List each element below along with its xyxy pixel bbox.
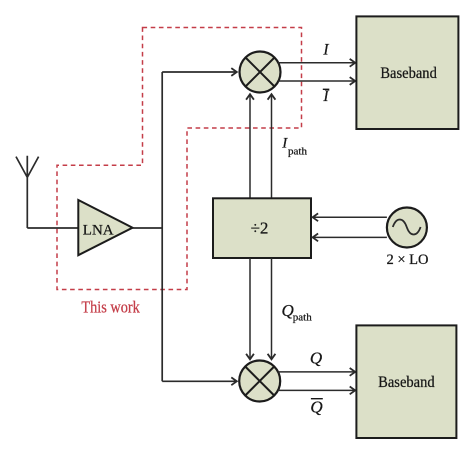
svg-text:Q: Q xyxy=(310,398,322,417)
svg-text:Q: Q xyxy=(310,349,322,368)
wire antenna to LNA xyxy=(27,227,78,229)
wire I_path arrows into top mixer xyxy=(249,94,251,198)
antenna xyxy=(16,156,39,228)
wire LO to divider input 2 xyxy=(313,236,387,238)
baseband top block xyxy=(356,16,458,129)
svg-text:This work: This work xyxy=(81,297,140,316)
wire Q output xyxy=(278,371,355,373)
wire LO to divider input 1 xyxy=(313,216,387,218)
wire main vertical xyxy=(161,72,163,381)
wire Q_path arrows into bottom mixer xyxy=(249,258,251,359)
wire to bottom mixer xyxy=(162,380,237,382)
svg-text:Baseband: Baseband xyxy=(380,65,437,82)
label I-bar xyxy=(322,88,329,105)
svg-text:I: I xyxy=(322,88,329,105)
wire Q-bar output xyxy=(278,389,355,391)
label I_path xyxy=(281,136,307,158)
label Q-bar xyxy=(310,398,322,417)
svg-text:2 × LO: 2 × LO xyxy=(386,252,428,268)
LNA U1 xyxy=(78,200,132,255)
oscillator 2xLO xyxy=(387,208,427,248)
mixer top (I mixer) xyxy=(240,52,281,93)
svg-text:I: I xyxy=(322,42,329,59)
red dashed boundary (This work region) xyxy=(57,28,302,290)
mixer bottom (Q mixer) xyxy=(239,361,280,402)
wire to top mixer xyxy=(162,71,237,73)
wire I-bar output xyxy=(278,80,355,82)
label Q_path xyxy=(282,301,313,324)
svg-text:÷2: ÷2 xyxy=(251,219,269,238)
divider U2 (divide by 2) xyxy=(213,198,311,258)
svg-text:path: path xyxy=(293,312,312,324)
svg-text:path: path xyxy=(288,145,307,157)
wire LNA output to main node xyxy=(133,227,163,229)
wire I output xyxy=(278,62,355,64)
svg-text:LNA: LNA xyxy=(83,222,114,238)
baseband bottom block xyxy=(356,325,456,438)
svg-text:Baseband: Baseband xyxy=(378,374,435,391)
